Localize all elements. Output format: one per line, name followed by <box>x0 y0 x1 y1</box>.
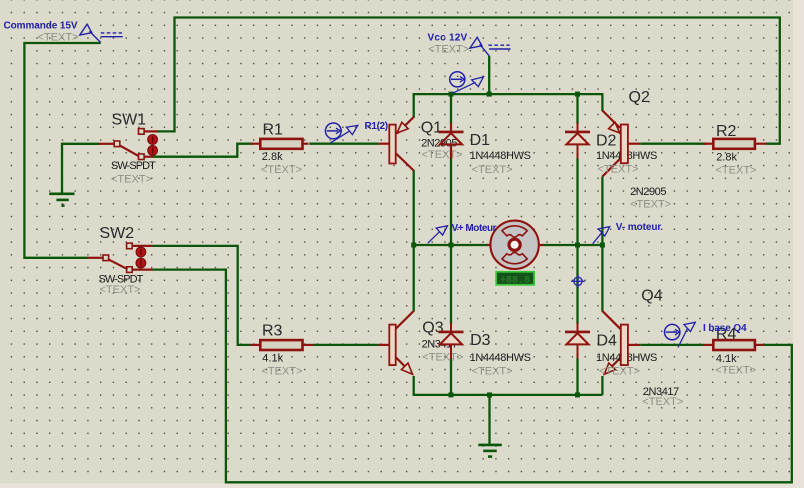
wire commande-to-SW2-pole <box>24 43 100 258</box>
node V+ / D1-D3 column <box>449 243 454 248</box>
resistor R4 <box>703 340 763 350</box>
voltage probe R1(2) <box>325 123 357 143</box>
origin marker crosshair <box>571 275 585 289</box>
wire D1 bottom <box>450 158 452 245</box>
transistor Q1 (PNP 2N2905) <box>378 117 413 171</box>
SW1 toggle balls <box>148 135 158 156</box>
svg-text:<TEXT>: <TEXT> <box>262 366 303 378</box>
wire SW1 top throw to top rail <box>157 18 780 144</box>
node V+ / Q1-Q3 column <box>411 243 416 248</box>
svg-text:D4: D4 <box>597 332 618 349</box>
svg-text:<TEXT>: <TEXT> <box>472 365 513 377</box>
wire SW2 bottom throw to bottom rail to R4 <box>152 270 792 483</box>
ground bottom center <box>478 445 502 457</box>
diode D3 (1N4448HWS) <box>439 323 464 359</box>
wire SW1 bottom throw to R1 <box>153 144 253 157</box>
svg-text:V+ Moteur: V+ Moteur <box>452 223 497 234</box>
resistor R3 <box>250 340 313 350</box>
svg-text:<TEXT>: <TEXT> <box>38 32 79 44</box>
svg-text:SW2: SW2 <box>100 225 135 242</box>
svg-text:2.8k: 2.8k <box>262 151 283 163</box>
wire bottom bridge rail <box>413 394 603 396</box>
voltage probe V- moteur <box>593 227 610 244</box>
wire Q4 emitter <box>601 376 603 395</box>
wire motor to V- node <box>542 244 602 246</box>
svg-text:SW-SPDT: SW-SPDT <box>111 160 156 172</box>
switch SW1 <box>99 129 158 160</box>
diode D4 (1N4448HWS) <box>565 323 590 359</box>
svg-text:V- moteur: V- moteur <box>616 222 662 233</box>
svg-text:<TEXT>: <TEXT> <box>111 173 152 185</box>
wire R3 to Q3 base <box>313 344 378 346</box>
wire D1 top <box>450 94 452 124</box>
svg-text:R1: R1 <box>263 122 284 139</box>
voltage probe V+ Moteur <box>428 226 448 243</box>
svg-text:4.1k: 4.1k <box>716 353 737 365</box>
svg-text:<TEXT>: <TEXT> <box>428 43 469 55</box>
ground left <box>49 194 74 206</box>
svg-text:2.8k: 2.8k <box>716 152 737 164</box>
svg-text:<TEXT>: <TEXT> <box>100 284 141 296</box>
svg-text:R3: R3 <box>262 323 283 340</box>
wire Q3 emitter <box>413 376 415 395</box>
transistor Q4 (NPN 2N3417) <box>602 311 640 374</box>
diode D1 (1N4448HWS) <box>439 123 464 159</box>
svg-text:Q2: Q2 <box>629 89 650 106</box>
wire SW2 top throw to R3 <box>152 246 251 345</box>
node V- / Q2-Q4 column <box>600 243 605 248</box>
diode D2 (1N4448HWS) <box>565 123 590 159</box>
wire D4 bottom <box>576 358 578 395</box>
wire SW1 pole to ground <box>62 144 99 194</box>
svg-text:<TEXT>: <TEXT> <box>598 163 639 175</box>
node V- / D2-D4 column <box>575 243 580 248</box>
svg-text:+88.8: +88.8 <box>500 276 530 287</box>
svg-text:<TEXT>: <TEXT> <box>422 149 463 161</box>
svg-text:1N4448HWS: 1N4448HWS <box>470 352 531 364</box>
wire Q4 base to R4 <box>640 344 704 346</box>
svg-text:4.1k: 4.1k <box>262 352 283 364</box>
motor display +88.8 <box>496 272 534 287</box>
wire Vcc drop <box>488 56 490 94</box>
power terminal Commande 15V <box>80 24 123 42</box>
wire R1 to Q1 base <box>309 143 378 145</box>
wire V+ node to motor <box>414 244 488 246</box>
wire top rail <box>414 93 603 95</box>
node gnd rail / ground stem <box>487 392 492 397</box>
svg-text:<TEXT>: <TEXT> <box>472 164 513 176</box>
svg-text:<TEXT>: <TEXT> <box>642 396 683 408</box>
node Vcc rail / D1 <box>449 92 454 97</box>
wire Q2 collector to Q4 collector <box>601 177 603 312</box>
svg-text:D2: D2 <box>596 133 617 150</box>
svg-text:Q3: Q3 <box>422 320 443 337</box>
node Vcc rail / Vcc drop <box>487 92 492 97</box>
svg-text:<TEXT>: <TEXT> <box>715 364 756 376</box>
node gnd rail / D4 <box>575 392 580 397</box>
svg-text:<TEXT>: <TEXT> <box>422 351 463 363</box>
motor M1 <box>487 221 543 269</box>
wire D2 bottom <box>576 158 578 245</box>
svg-text:<TEXT>: <TEXT> <box>630 199 671 211</box>
power terminal Vcc 12V <box>470 37 511 56</box>
wire Q2 emitter <box>601 93 603 111</box>
resistor R1 <box>251 139 309 149</box>
voltage probe at Vcc rail <box>450 72 484 94</box>
wire Q1 emitter <box>413 93 415 118</box>
node Vcc rail / D2 <box>575 92 580 97</box>
wire D3 top <box>450 245 452 324</box>
Q4 base bar <box>621 325 628 366</box>
resistor R2 <box>703 139 766 149</box>
svg-text:I base Q4: I base Q4 <box>703 323 747 334</box>
wire D2 top <box>576 94 578 124</box>
svg-text:R1(2): R1(2) <box>365 121 389 132</box>
current probe I base Q4 <box>665 322 696 347</box>
wire Q1 collector to Q3 collector <box>413 170 415 312</box>
wire D4 top <box>576 245 578 324</box>
Q2 base bar <box>621 125 628 164</box>
svg-text:Q4: Q4 <box>641 288 662 305</box>
transistor Q2 (PNP 2N2905) <box>602 111 640 177</box>
switch SW2 <box>88 243 153 272</box>
svg-text:<TEXT>: <TEXT> <box>716 165 757 177</box>
svg-text:R2: R2 <box>716 123 737 140</box>
svg-text:Commande 15V: Commande 15V <box>4 20 78 31</box>
svg-text:Q1: Q1 <box>421 119 442 136</box>
svg-text:Vcc 12V: Vcc 12V <box>428 33 468 44</box>
svg-text:D1: D1 <box>470 132 491 149</box>
junction dots <box>411 92 605 398</box>
svg-text:2N2905: 2N2905 <box>630 186 666 198</box>
svg-text:<TEXT>: <TEXT> <box>599 365 640 377</box>
transistor Q3 (NPN 2N3417) <box>378 311 413 374</box>
wire ground stem <box>488 395 490 445</box>
svg-text:<TEXT>: <TEXT> <box>261 164 302 176</box>
node gnd rail / D3 <box>449 392 454 397</box>
svg-text:1N4448HWS: 1N4448HWS <box>470 150 531 162</box>
wire Q2 base to R2 <box>640 143 706 145</box>
svg-text:D3: D3 <box>470 332 491 349</box>
wire D3 bottom <box>450 358 452 395</box>
svg-text:SW1: SW1 <box>112 112 147 129</box>
SW2 toggle balls <box>136 247 146 268</box>
